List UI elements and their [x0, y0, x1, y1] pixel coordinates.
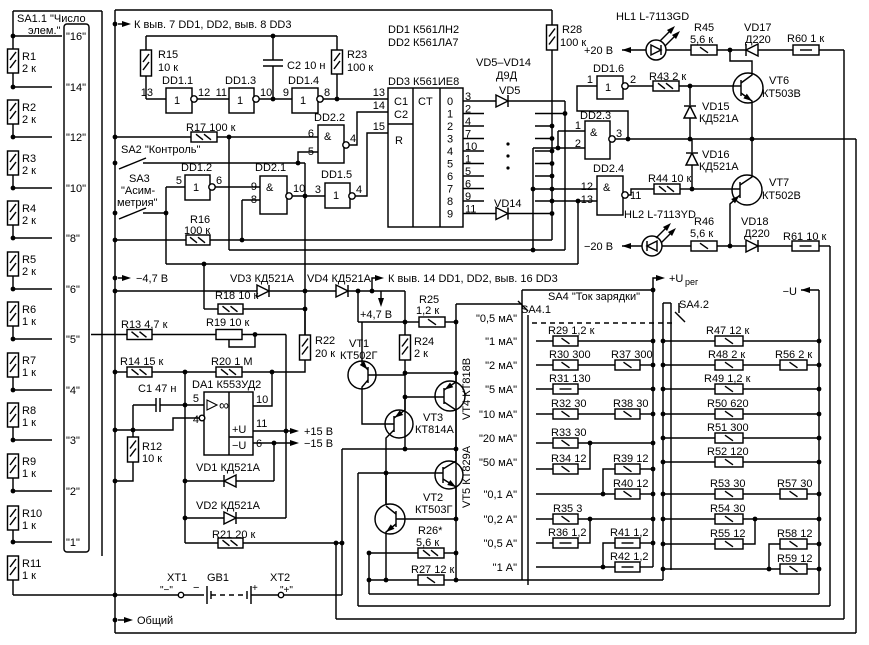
transistor VT7 — [732, 175, 762, 205]
svg-text:6: 6 — [256, 438, 262, 450]
svg-text:C2: C2 — [394, 109, 408, 121]
svg-text:КТ503Г: КТ503Г — [415, 504, 452, 516]
svg-text:R10: R10 — [22, 508, 42, 520]
SA1.1 tap strip box — [64, 24, 89, 552]
svg-text:13: 13 — [373, 87, 385, 99]
svg-text:4: 4 — [447, 146, 453, 158]
resistor R48 — [661, 363, 666, 368]
wire x286 to VD2 — [285, 431, 287, 518]
svg-text:"5": "5" — [66, 334, 80, 346]
svg-text:1,2 к: 1,2 к — [416, 305, 439, 317]
svg-text:14: 14 — [373, 100, 385, 112]
wire DD2.2 out to DD3 pin14 — [349, 112, 388, 145]
svg-text:R58 12: R58 12 — [777, 528, 812, 540]
wire DD1.2 out — [215, 186, 260, 188]
svg-text:КТ502Г: КТ502Г — [340, 350, 377, 362]
resistor R28 — [551, 10, 553, 25]
resistor R51 — [661, 436, 666, 441]
wire DD2.1 out to DD1.5 — [292, 195, 325, 197]
dashed link SA4.1-SA4.2 — [532, 322, 674, 324]
svg-text:R40 12: R40 12 — [613, 478, 648, 490]
svg-text:R57 30: R57 30 — [777, 478, 812, 490]
svg-text:метрия": метрия" — [117, 197, 158, 209]
svg-text:R56 2 к: R56 2 к — [775, 349, 812, 361]
svg-text:VT6: VT6 — [769, 75, 789, 87]
svg-text:"10 мА": "10 мА" — [479, 409, 517, 421]
svg-text:+4,7 В: +4,7 В — [360, 309, 392, 321]
resistor R15 — [145, 36, 147, 50]
resistor R52 — [661, 460, 666, 465]
svg-text:R55 12: R55 12 — [710, 528, 745, 540]
diode VD15 — [689, 86, 691, 105]
resistor R30 — [536, 364, 553, 366]
resistor R3 — [8, 151, 19, 175]
resistor R49 — [661, 387, 666, 392]
svg-text:6: 6 — [447, 171, 453, 183]
svg-text:−U: −U — [783, 286, 797, 298]
svg-text:DD2 К561ЛА7: DD2 К561ЛА7 — [388, 37, 459, 49]
svg-text:1: 1 — [193, 182, 199, 194]
svg-text:R9: R9 — [22, 456, 36, 468]
svg-text:R6: R6 — [22, 304, 36, 316]
svg-text:5: 5 — [176, 175, 182, 187]
svg-text:2 к: 2 к — [22, 215, 36, 227]
svg-text:9: 9 — [251, 181, 257, 193]
svg-text:КД521А: КД521А — [699, 113, 739, 125]
svg-text:100 к: 100 к — [347, 62, 373, 74]
svg-text:+: + — [252, 583, 258, 594]
svg-text:R47 12 к: R47 12 к — [706, 325, 750, 337]
wire x578 riser — [577, 201, 579, 264]
resistor R6 — [8, 302, 19, 326]
diode VD16 — [691, 139, 693, 152]
svg-text:13: 13 — [581, 194, 593, 206]
node tap "10" — [11, 186, 16, 191]
switch SA2 — [113, 161, 118, 166]
resistor R9 — [8, 454, 19, 478]
svg-text:1: 1 — [447, 109, 453, 121]
wire y264 — [166, 263, 578, 265]
wire DD2.4 pin13 — [535, 200, 597, 202]
svg-text:R4: R4 — [22, 203, 36, 215]
switch SA4 box — [456, 303, 522, 305]
svg-text:100 к: 100 к — [184, 225, 210, 237]
resistor R18 — [203, 264, 205, 309]
svg-text:CT: CT — [418, 96, 433, 108]
resistor R50 — [661, 412, 666, 417]
resistor R53 — [661, 492, 666, 497]
svg-text:4: 4 — [193, 414, 199, 426]
svg-text:R18 10 к: R18 10 к — [215, 290, 259, 302]
wire main left bus — [114, 10, 116, 633]
svg-text:C2 10 н: C2 10 н — [287, 60, 325, 72]
svg-text:"4": "4" — [66, 385, 80, 397]
svg-text:VD1 КД521А: VD1 КД521А — [196, 462, 261, 474]
wire outer right frame — [855, 139, 857, 633]
svg-text:XT1: XT1 — [167, 572, 187, 584]
capacitor C2 — [272, 36, 274, 60]
wire DD1.6 out / R43 — [628, 85, 653, 87]
svg-text:DD1.6: DD1.6 — [593, 63, 624, 75]
svg-text:9: 9 — [447, 209, 453, 221]
svg-text:R46: R46 — [694, 216, 714, 228]
node tap "16" — [11, 34, 16, 39]
svg-text:6: 6 — [216, 175, 222, 187]
svg-text:R42 1,2: R42 1,2 — [610, 551, 649, 563]
resistor R35 — [536, 518, 553, 520]
svg-text:5: 5 — [193, 393, 199, 405]
node tap "14" — [11, 85, 16, 90]
wire box A bottom — [455, 579, 457, 581]
svg-text:∞: ∞ — [219, 397, 229, 413]
node tap "8" — [11, 236, 16, 241]
svg-text:R33 30: R33 30 — [551, 427, 586, 439]
wire pin4 path — [115, 418, 199, 430]
wire x274 to VD1 — [273, 443, 275, 481]
svg-text:−4,7 В: −4,7 В — [136, 273, 168, 285]
wire DD2.4 out / R44 — [628, 189, 654, 195]
resistor R47 — [661, 339, 666, 344]
node +4.7V arrow — [380, 291, 382, 300]
wire R16 to bus — [210, 239, 552, 241]
svg-text:R2: R2 — [22, 102, 36, 114]
svg-text:3: 3 — [616, 128, 622, 140]
node tap "4" — [11, 388, 16, 393]
wire DD2.3 pin1 — [558, 130, 585, 132]
wire DD3 output stubs — [463, 113, 484, 115]
wire y36 rail — [146, 35, 337, 37]
wire left group bus x653 — [652, 290, 654, 567]
svg-text:2 к: 2 к — [22, 165, 36, 177]
svg-text:1: 1 — [300, 95, 306, 107]
node tap "5" — [11, 337, 16, 342]
wire y250 to DD2.3 — [229, 249, 565, 251]
svg-text:R38 30: R38 30 — [613, 398, 648, 410]
svg-text:0: 0 — [447, 96, 453, 108]
wire R17 to DD2.2 pin6 — [217, 136, 318, 138]
node K vyv.14 label — [370, 289, 375, 294]
svg-text:1: 1 — [174, 95, 180, 107]
svg-text:элем.": элем." — [28, 25, 61, 37]
wire diode bus x565 — [564, 101, 566, 250]
svg-text:1: 1 — [333, 190, 339, 202]
svg-text:VD18: VD18 — [741, 216, 769, 228]
resistor R34 — [536, 468, 553, 470]
wire x405 chain — [404, 291, 406, 335]
svg-text:"−": "−" — [160, 585, 173, 596]
wire frame y594 riser x369 — [368, 553, 370, 594]
svg-text:SA3: SA3 — [129, 173, 150, 185]
svg-text:DD2.1: DD2.1 — [255, 162, 286, 174]
node +15V — [253, 430, 293, 432]
svg-text:R: R — [395, 135, 403, 147]
svg-text:11: 11 — [256, 418, 267, 430]
svg-text:VT2: VT2 — [423, 492, 443, 504]
svg-text:R37 300: R37 300 — [611, 349, 653, 361]
wire VT5 base frame riser — [357, 473, 359, 606]
wire y373 R24 tap — [405, 372, 456, 374]
svg-text:VT1: VT1 — [349, 338, 369, 350]
svg-text:&: & — [603, 182, 611, 194]
svg-text:C1: C1 — [394, 96, 408, 108]
svg-text:1: 1 — [575, 120, 581, 132]
svg-text:VD15: VD15 — [702, 101, 730, 113]
wire SA2 riser x305 — [304, 163, 306, 335]
svg-text:VD4 КД521А: VD4 КД521А — [307, 273, 372, 285]
svg-text:"6": "6" — [66, 284, 80, 296]
svg-text:2 к: 2 к — [22, 114, 36, 126]
svg-text:R29 1,2 к: R29 1,2 к — [548, 325, 595, 337]
svg-text:10 к: 10 к — [158, 62, 178, 74]
svg-text:SA4.1: SA4.1 — [521, 304, 551, 316]
svg-text:8: 8 — [447, 196, 453, 208]
resistor R5 — [8, 252, 19, 276]
resistor R17 — [113, 135, 118, 140]
svg-text:"0,5 А": "0,5 А" — [484, 538, 518, 550]
svg-text:VD17: VD17 — [744, 22, 772, 34]
svg-text:10: 10 — [293, 183, 305, 195]
svg-text:10: 10 — [260, 87, 272, 99]
resistor R46 — [662, 245, 691, 247]
svg-text:R7: R7 — [22, 355, 36, 367]
svg-text:+U: +U — [669, 273, 683, 285]
svg-text:VT4 КТ818В: VT4 КТ818В — [461, 358, 473, 420]
svg-text:КТ503В: КТ503В — [762, 88, 801, 100]
resistor R24 — [400, 335, 411, 360]
svg-text:R34 12: R34 12 — [551, 453, 586, 465]
svg-text:1 к: 1 к — [22, 367, 36, 379]
svg-text:3: 3 — [315, 184, 321, 196]
svg-text:2: 2 — [630, 74, 636, 86]
resistor R31 — [536, 388, 553, 390]
svg-text:5,6 к: 5,6 к — [690, 228, 713, 240]
resistor R14 — [113, 370, 118, 375]
node tap "1" — [11, 540, 16, 545]
svg-text:R54 30: R54 30 — [710, 503, 745, 515]
wire diode bus stubs — [535, 113, 565, 115]
wire box B right edge — [455, 579, 457, 581]
svg-text:R28: R28 — [562, 24, 582, 36]
wire DD2.4 pin12 — [533, 188, 597, 190]
wire SA3 net — [143, 212, 166, 214]
svg-text:R41 1,2: R41 1,2 — [610, 527, 649, 539]
svg-text:"1": "1" — [66, 537, 80, 549]
wire DD1.3 out — [259, 98, 292, 100]
svg-text:6: 6 — [308, 128, 314, 140]
svg-text:DD1.2: DD1.2 — [181, 162, 212, 174]
svg-text:"2": "2" — [66, 486, 80, 498]
svg-text:4: 4 — [356, 184, 362, 196]
svg-text:R60 1 к: R60 1 к — [787, 33, 824, 45]
resistor R22 — [300, 335, 311, 360]
wire x166 riser — [165, 187, 167, 264]
node +Ureg label — [653, 278, 659, 290]
transistor VT5 — [435, 461, 463, 489]
wire +Ureg row — [522, 289, 653, 291]
svg-text:"12": "12" — [66, 132, 86, 144]
svg-text:"16": "16" — [66, 31, 86, 43]
node tap "3" — [11, 438, 16, 443]
svg-text:R36 1,2: R36 1,2 — [548, 527, 587, 539]
svg-text:2 к: 2 к — [22, 266, 36, 278]
svg-text:R14 15 к: R14 15 к — [120, 356, 164, 368]
wire R60 to right frame — [819, 49, 844, 51]
ladder wire — [12, 11, 14, 50]
svg-text:5: 5 — [447, 159, 453, 171]
svg-text:C1 47 н: C1 47 н — [138, 383, 176, 395]
wire ladder bottom to battery — [12, 580, 14, 595]
svg-text:"2 мА": "2 мА" — [485, 360, 517, 372]
svg-text:DD1 К561ЛН2: DD1 К561ЛН2 — [388, 24, 459, 36]
svg-text:3: 3 — [447, 134, 453, 146]
svg-text:VD3 КД521А: VD3 КД521А — [230, 273, 295, 285]
svg-text:15: 15 — [373, 121, 385, 133]
resistor R45 — [666, 49, 691, 51]
svg-text:"0,2 А": "0,2 А" — [484, 514, 518, 526]
svg-text:5,6 к: 5,6 к — [690, 34, 713, 46]
svg-text:R17 100 к: R17 100 к — [186, 122, 236, 134]
svg-text:R30 300: R30 300 — [549, 349, 591, 361]
svg-text:R39 12: R39 12 — [613, 453, 648, 465]
svg-text:XT2: XT2 — [270, 572, 290, 584]
wire R27 row to box right — [456, 579, 663, 581]
wire DD1.1 out — [197, 98, 229, 100]
svg-text:"10": "10" — [66, 183, 86, 195]
svg-text:VD5: VD5 — [499, 85, 520, 97]
svg-text:"14": "14" — [66, 82, 86, 94]
resistor R36 — [536, 542, 553, 544]
switch SA4.1 blade and strip — [527, 315, 529, 585]
svg-text:+15 В: +15 В — [304, 426, 333, 438]
resistor R26 — [367, 551, 372, 556]
resistor R32 — [536, 413, 553, 415]
svg-text:&: & — [324, 131, 332, 143]
node tap "2" — [11, 489, 16, 494]
svg-text:R5: R5 — [22, 254, 36, 266]
wire SA2 net — [143, 162, 305, 164]
resistor R16 — [113, 238, 118, 243]
svg-text:"50 мА": "50 мА" — [479, 457, 517, 469]
svg-text:R51 300: R51 300 — [707, 422, 749, 434]
wire DD2.3 out y139 — [615, 138, 856, 140]
svg-text:DD1.1: DD1.1 — [162, 75, 193, 87]
svg-text:R15: R15 — [158, 49, 178, 61]
svg-text:7: 7 — [447, 184, 453, 196]
svg-text:"8": "8" — [66, 233, 80, 245]
svg-text:VT7: VT7 — [769, 177, 789, 189]
wire DD1.6 feed from DD2.3 out — [577, 86, 628, 139]
svg-text:20 к: 20 к — [315, 348, 335, 360]
svg-text:"Асим-: "Асим- — [121, 185, 155, 197]
svg-text:"0,1 А": "0,1 А" — [484, 489, 518, 501]
svg-text:+U: +U — [232, 424, 246, 436]
svg-text:13: 13 — [141, 87, 153, 99]
svg-text:К выв. 7 DD1, DD2, выв. 8 DD3: К выв. 7 DD1, DD2, выв. 8 DD3 — [134, 19, 291, 31]
wire battery riser x342 — [341, 449, 343, 595]
svg-text:2: 2 — [447, 121, 453, 133]
wire right bus x819 / -U — [818, 290, 820, 594]
svg-text:R8: R8 — [22, 405, 36, 417]
wire x185 riser — [184, 372, 186, 543]
resistor R1 — [8, 49, 19, 73]
svg-text:КД521А: КД521А — [699, 161, 739, 173]
svg-text:VD16: VD16 — [702, 149, 730, 161]
svg-text:HL1 L-7113GD: HL1 L-7113GD — [616, 11, 689, 23]
resistor R7 — [8, 353, 19, 377]
svg-text:R20 1 М: R20 1 М — [211, 356, 253, 368]
svg-text:R45: R45 — [694, 22, 714, 34]
svg-text:DD2.2: DD2.2 — [314, 112, 345, 124]
svg-text:R26*: R26* — [418, 525, 443, 537]
svg-text:R3: R3 — [22, 153, 36, 165]
svg-text:+20 В: +20 В — [584, 45, 613, 57]
svg-text:R11: R11 — [22, 558, 41, 570]
wire DD1.5 out to DD3 pin15 — [355, 133, 388, 196]
svg-text:R32 30: R32 30 — [551, 398, 586, 410]
wire R61 to frame — [819, 245, 830, 247]
svg-text:К выв. 14 DD1, DD2, выв. 16 DD: К выв. 14 DD1, DD2, выв. 16 DD3 — [388, 273, 558, 285]
wire VD3/VD4 row — [113, 289, 118, 294]
svg-text:1: 1 — [237, 95, 243, 107]
svg-text:SA1.1 "Число: SA1.1 "Число — [17, 13, 86, 25]
svg-text:КТ814А: КТ814А — [415, 424, 454, 436]
svg-text:R52 120: R52 120 — [707, 446, 749, 458]
transistor VT6 — [733, 73, 763, 103]
svg-text:R12: R12 — [142, 441, 162, 453]
svg-text:R23: R23 — [347, 49, 367, 61]
svg-text:DD3 К561ИЕ8: DD3 К561ИЕ8 — [388, 76, 459, 88]
svg-text:−20 В: −20 В — [584, 241, 613, 253]
svg-text:DD2.4: DD2.4 — [593, 163, 624, 175]
svg-text:1 к: 1 к — [22, 417, 36, 429]
svg-text:R50 620: R50 620 — [707, 398, 749, 410]
wire DD2.1 pin8 — [242, 199, 260, 201]
svg-text:"1 мА": "1 мА" — [485, 336, 517, 348]
svg-text:SA4 "Ток зарядки": SA4 "Ток зарядки" — [548, 291, 640, 303]
resistor R11 — [8, 556, 19, 580]
svg-text:R48 2 к: R48 2 к — [708, 349, 745, 361]
resistor R54 — [661, 517, 666, 522]
svg-text:R49 1,2 к: R49 1,2 к — [704, 373, 751, 385]
resistor R33 — [536, 442, 553, 444]
node tap "12" — [11, 135, 16, 140]
svg-text:DD2.3: DD2.3 — [580, 110, 611, 122]
svg-text:R22: R22 — [315, 335, 335, 347]
node K vyv.7 label — [113, 22, 118, 27]
svg-text:"0,5 мА": "0,5 мА" — [476, 313, 517, 325]
resistor R55 — [661, 542, 666, 547]
svg-text:8: 8 — [324, 87, 330, 99]
svg-text:R31 130: R31 130 — [549, 373, 591, 385]
svg-text:VT3: VT3 — [423, 412, 443, 424]
svg-text:100 к: 100 к — [560, 37, 586, 49]
svg-text:9: 9 — [283, 87, 289, 99]
resistor R23 — [336, 36, 338, 50]
svg-text:R19 10 к: R19 10 к — [206, 317, 250, 329]
wire x229 riser — [228, 137, 230, 250]
svg-text:"1 А": "1 А" — [493, 562, 517, 574]
wire y449 collector row — [342, 448, 456, 450]
svg-text:1 к: 1 к — [22, 570, 36, 582]
svg-text:R53 30: R53 30 — [710, 478, 745, 490]
svg-text:10 к: 10 к — [142, 453, 162, 465]
node tap "6" — [11, 287, 16, 292]
svg-text:R44 10 к: R44 10 к — [648, 173, 692, 185]
svg-text:VD5–VD14: VD5–VD14 — [476, 57, 531, 69]
resistor R29 — [536, 340, 553, 342]
resistor R2 — [8, 100, 19, 124]
svg-text:"5 мА": "5 мА" — [485, 384, 517, 396]
